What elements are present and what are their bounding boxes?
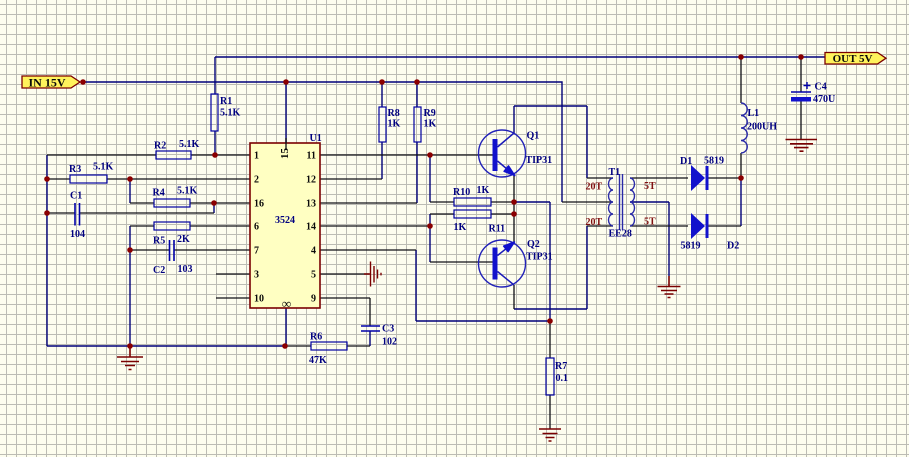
svg-text:2: 2	[254, 175, 259, 186]
svg-text:R7: R7	[555, 361, 567, 372]
svg-text:200UH: 200UH	[747, 122, 777, 133]
svg-text:5.1K: 5.1K	[220, 108, 241, 119]
svg-text:Q1: Q1	[527, 131, 540, 142]
svg-text:7: 7	[254, 246, 259, 257]
svg-text:13: 13	[306, 199, 316, 210]
svg-text:T1: T1	[609, 167, 621, 178]
svg-text:4: 4	[311, 246, 316, 257]
svg-text:IN 15V: IN 15V	[28, 76, 65, 90]
svg-text:C4: C4	[815, 82, 827, 93]
svg-text:5.1K: 5.1K	[179, 139, 200, 150]
svg-text:102: 102	[382, 337, 397, 348]
svg-text:R6: R6	[310, 332, 322, 343]
svg-text:5819: 5819	[704, 156, 724, 167]
svg-text:R1: R1	[220, 96, 232, 107]
svg-text:R9: R9	[424, 108, 436, 119]
svg-text:10: 10	[254, 294, 264, 305]
svg-text:1K: 1K	[424, 119, 437, 130]
svg-text:C3: C3	[382, 324, 394, 335]
svg-text:R8: R8	[388, 108, 400, 119]
svg-text:R5: R5	[153, 236, 165, 247]
svg-text:1K: 1K	[477, 185, 490, 196]
svg-text:R3: R3	[69, 164, 81, 175]
svg-text:11: 11	[307, 151, 316, 162]
svg-text:OUT 5V: OUT 5V	[833, 53, 873, 65]
svg-text:L1: L1	[748, 108, 760, 119]
svg-text:6: 6	[254, 222, 259, 233]
svg-text:0.1: 0.1	[556, 373, 569, 384]
svg-text:TIP31: TIP31	[526, 155, 553, 166]
svg-text:C2: C2	[153, 265, 165, 276]
svg-text:R4: R4	[153, 188, 165, 199]
svg-text:1: 1	[254, 151, 259, 162]
svg-text:5: 5	[311, 270, 316, 281]
svg-text:R2: R2	[154, 141, 166, 152]
svg-text:∞: ∞	[282, 296, 291, 311]
svg-text:C1: C1	[70, 191, 82, 202]
svg-text:Q2: Q2	[527, 239, 540, 250]
svg-text:TIP31: TIP31	[526, 252, 553, 263]
svg-text:D1: D1	[680, 156, 692, 167]
svg-text:16: 16	[254, 199, 264, 210]
svg-text:3524: 3524	[275, 215, 295, 226]
svg-text:1K: 1K	[388, 119, 401, 130]
svg-text:14: 14	[306, 222, 316, 233]
svg-text:1K: 1K	[454, 222, 467, 233]
svg-text:U1: U1	[310, 133, 322, 144]
svg-text:2K: 2K	[177, 234, 190, 245]
svg-text:20T: 20T	[586, 217, 603, 228]
svg-text:5T: 5T	[644, 217, 656, 228]
svg-text:103: 103	[178, 264, 193, 275]
svg-text:5819: 5819	[681, 241, 701, 252]
svg-text:9: 9	[311, 294, 316, 305]
svg-text:104: 104	[70, 229, 85, 240]
svg-text:12: 12	[306, 175, 316, 186]
svg-text:5.1K: 5.1K	[93, 162, 114, 173]
svg-text:R11: R11	[489, 224, 506, 235]
svg-text:3: 3	[254, 270, 259, 281]
svg-text:R10: R10	[453, 187, 470, 198]
svg-text:15: 15	[279, 148, 291, 160]
svg-text:5.1K: 5.1K	[177, 186, 198, 197]
svg-text:5T: 5T	[644, 181, 656, 192]
svg-text:20T: 20T	[586, 182, 603, 193]
svg-text:470U: 470U	[813, 94, 835, 105]
svg-text:47K: 47K	[309, 355, 327, 366]
svg-text:EE28: EE28	[609, 229, 632, 240]
svg-text:D2: D2	[727, 241, 739, 252]
